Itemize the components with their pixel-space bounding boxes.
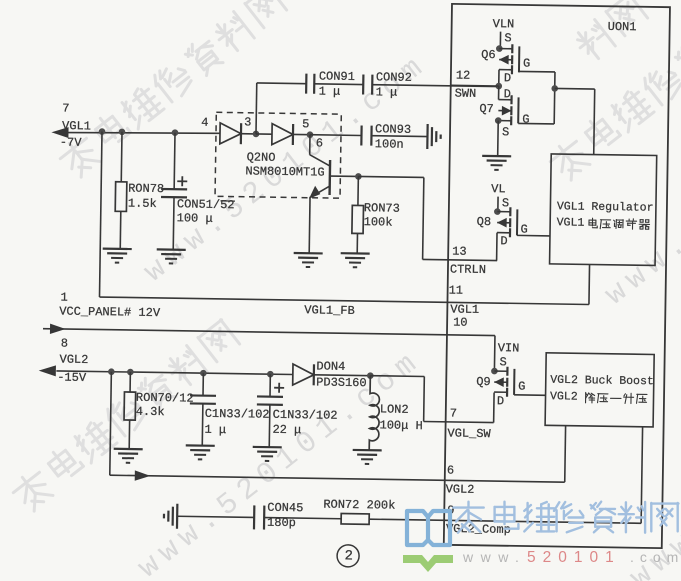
svg-text:VLN: VLN <box>493 17 515 31</box>
svg-text:VGL_SW: VGL_SW <box>447 426 491 441</box>
svg-text:-7V: -7V <box>60 136 83 150</box>
svg-text:5: 5 <box>302 117 309 131</box>
svg-text:1 μ: 1 μ <box>319 84 341 98</box>
svg-text:www.: www. <box>462 549 526 565</box>
svg-text:CON45: CON45 <box>267 501 303 516</box>
svg-text:12: 12 <box>456 69 471 83</box>
svg-text:VGL2: VGL2 <box>446 482 475 496</box>
svg-text:VGL1: VGL1 <box>62 119 91 133</box>
svg-text:10: 10 <box>453 316 468 330</box>
svg-text:VGL1_FB: VGL1_FB <box>304 303 355 318</box>
svg-text:RON70/12: RON70/12 <box>136 391 194 406</box>
svg-text:G: G <box>518 380 525 394</box>
svg-text:G: G <box>522 113 529 127</box>
svg-text:3: 3 <box>244 115 251 129</box>
svg-text:S: S <box>504 31 511 45</box>
svg-text:SWN: SWN <box>455 87 477 101</box>
svg-text:22 μ: 22 μ <box>272 423 301 437</box>
svg-text:RON73: RON73 <box>364 201 400 216</box>
svg-text:VCC_PANEL# 12V: VCC_PANEL# 12V <box>59 305 161 321</box>
svg-text:VGL2: VGL2 <box>59 353 88 367</box>
svg-text:Q7: Q7 <box>479 102 494 116</box>
svg-text:Q6: Q6 <box>481 48 496 62</box>
svg-text:D: D <box>497 394 504 408</box>
svg-text:LON2: LON2 <box>380 402 409 416</box>
svg-text:VGL1: VGL1 <box>557 216 585 229</box>
svg-text:100 μ: 100 μ <box>177 211 213 226</box>
svg-text:2: 2 <box>344 548 353 564</box>
svg-text:180p: 180p <box>267 516 296 530</box>
svg-text:RON78: RON78 <box>128 182 164 197</box>
svg-text:VIN: VIN <box>498 341 520 355</box>
svg-text:CON92: CON92 <box>376 70 412 85</box>
svg-text:PD3S160: PD3S160 <box>316 375 367 390</box>
svg-text:7: 7 <box>450 406 457 420</box>
svg-text:1 μ: 1 μ <box>204 423 226 437</box>
svg-text:4: 4 <box>201 116 208 130</box>
svg-text:Q8: Q8 <box>477 215 492 229</box>
svg-text:C1N33/102: C1N33/102 <box>205 407 270 422</box>
svg-text:520101: 520101 <box>527 549 621 566</box>
svg-text:100k: 100k <box>364 215 393 229</box>
svg-text:G: G <box>523 57 530 71</box>
svg-text:D: D <box>504 71 511 85</box>
svg-text:Q9: Q9 <box>476 375 491 389</box>
svg-text:G: G <box>520 223 527 237</box>
svg-text:4.3k: 4.3k <box>136 405 165 419</box>
svg-text:C1N33/102: C1N33/102 <box>273 408 338 423</box>
svg-text:VGL1 Regulator: VGL1 Regulator <box>557 200 654 214</box>
svg-text:7: 7 <box>62 102 69 116</box>
svg-text:CON91: CON91 <box>319 69 355 84</box>
svg-text:UON1: UON1 <box>608 20 637 34</box>
svg-text:VGL2: VGL2 <box>550 390 578 403</box>
svg-text:CON51/52: CON51/52 <box>177 197 235 212</box>
svg-text:Q2NO: Q2NO <box>247 150 276 164</box>
svg-text:1.5k: 1.5k <box>128 197 157 211</box>
svg-text:1: 1 <box>60 291 67 305</box>
svg-text:CON93: CON93 <box>375 122 411 137</box>
svg-text:S: S <box>502 125 509 139</box>
svg-text:RON72 200k: RON72 200k <box>323 498 395 513</box>
svg-text:S: S <box>502 196 509 210</box>
svg-text:13: 13 <box>452 245 467 259</box>
svg-text:VL: VL <box>491 182 506 196</box>
svg-text:www.520101.com: www.520101.com <box>132 344 429 581</box>
svg-text:CTRLN: CTRLN <box>450 262 486 277</box>
svg-text:NSM8010MT1G: NSM8010MT1G <box>245 164 324 179</box>
svg-text:.com: .com <box>630 549 681 565</box>
svg-text:100μ H: 100μ H <box>379 418 422 433</box>
svg-text:1 μ: 1 μ <box>376 85 398 99</box>
svg-text:100n: 100n <box>375 137 404 151</box>
svg-text:VGL2 Buck Boost: VGL2 Buck Boost <box>550 374 654 389</box>
svg-text:6: 6 <box>447 463 454 477</box>
svg-text:D: D <box>500 234 507 248</box>
svg-text:DON4: DON4 <box>316 359 345 373</box>
svg-text:6: 6 <box>316 136 323 150</box>
svg-text:-15V: -15V <box>57 371 87 385</box>
svg-text:11: 11 <box>449 283 464 297</box>
svg-text:8: 8 <box>61 337 68 351</box>
svg-text:S: S <box>499 355 506 369</box>
